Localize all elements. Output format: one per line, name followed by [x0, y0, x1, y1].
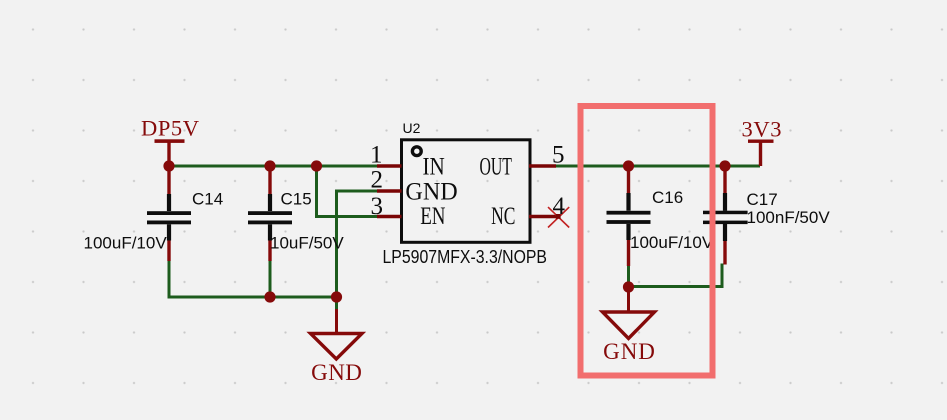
junction: left GND node: [331, 291, 342, 302]
ground symbol left: [311, 309, 363, 385]
svg-text:GND: GND: [405, 179, 457, 206]
svg-text:5: 5: [552, 142, 565, 169]
wire: bottom right ground link: [629, 264, 723, 287]
power flag DP5V: [141, 116, 199, 167]
svg-text:10uF/50V: 10uF/50V: [270, 233, 344, 252]
pin 1 IN stub: [377, 164, 402, 167]
wire: left GND stub below rail: [335, 297, 338, 309]
svg-text:3V3: 3V3: [742, 117, 782, 142]
svg-text:LP5907MFX-3.3/NOPB: LP5907MFX-3.3/NOPB: [383, 247, 548, 267]
svg-text:C17: C17: [747, 190, 778, 209]
pin 5 OUT stub: [529, 164, 556, 167]
wire: C16 bottom green segment: [627, 266, 630, 287]
svg-text:U2: U2: [403, 120, 421, 136]
svg-text:DP5V: DP5V: [141, 116, 199, 141]
wire: top input rail: [169, 165, 378, 168]
capacitor C16: [607, 166, 714, 266]
junction: C16 top: [623, 160, 634, 171]
svg-text:EN: EN: [420, 203, 445, 230]
power flag 3V3: [742, 117, 782, 167]
wire: bottom left ground rail: [169, 296, 337, 298]
svg-text:C15: C15: [281, 190, 312, 209]
ground symbol right: [603, 287, 655, 364]
svg-text:C16: C16: [652, 188, 683, 207]
svg-text:4: 4: [553, 193, 566, 220]
junction: C15 bottom: [264, 291, 275, 302]
regulator U2: [383, 120, 548, 267]
pin 3 EN stub: [377, 215, 402, 218]
svg-text:3: 3: [371, 193, 384, 220]
svg-text:C14: C14: [192, 190, 223, 209]
junction: C17 top: [719, 160, 730, 171]
capacitor C14: [84, 166, 224, 261]
svg-text:100uF/10V: 100uF/10V: [84, 233, 168, 252]
wire: output rail from pin 5 to 3V3: [555, 165, 760, 168]
capacitor C15: [248, 166, 344, 261]
capacitor C17: [703, 166, 830, 265]
pin 4 NC stub: [529, 215, 559, 218]
svg-text:100uF/10V: 100uF/10V: [630, 233, 714, 252]
svg-text:1: 1: [370, 142, 383, 169]
wire: EN branch from rail down and right to pin 3: [317, 165, 379, 217]
pin 2 GND stub: [377, 189, 402, 192]
svg-text:NC: NC: [491, 203, 515, 230]
svg-text:GND: GND: [311, 360, 362, 385]
svg-text:GND: GND: [603, 339, 655, 364]
junction: EN branch: [311, 160, 322, 171]
svg-text:OUT: OUT: [480, 153, 512, 180]
junction: C16 bottom / GND: [623, 281, 634, 292]
wire: C14 bottom green segment: [168, 261, 171, 297]
svg-text:100nF/50V: 100nF/50V: [747, 208, 831, 227]
wire: GND pin 2 branch to bottom rail: [337, 191, 379, 297]
svg-text:2: 2: [371, 167, 384, 194]
junction: DP5V / C14 / rail: [163, 160, 174, 171]
junction: C15 top: [264, 160, 275, 171]
no-connect X on pin 4: [548, 207, 569, 227]
highlight box around C16/GND: [581, 106, 713, 376]
wire: C15 bottom green segment: [269, 261, 272, 297]
svg-text:IN: IN: [423, 153, 445, 180]
